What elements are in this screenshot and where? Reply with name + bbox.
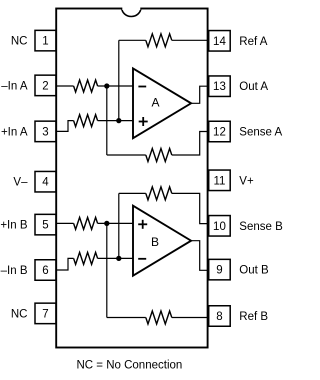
wire pin3 jog to resistor to op-amp A non-inverting input: [56, 121, 133, 132]
caption: NC = No Connection: [77, 359, 183, 371]
svg-text:8: 8: [216, 311, 222, 323]
pin 8 (Ref B): [209, 306, 231, 327]
op-amp U1B: [133, 206, 191, 276]
pin 4 (V-): [35, 171, 56, 192]
svg-text:Out A: Out A: [239, 81, 268, 93]
wire junction A+ up to Ref A row: [118, 40, 120, 120]
wire Sense B feedback row to pin 10: [119, 193, 209, 223]
svg-text:V+: V+: [239, 175, 254, 187]
pin 13 (Out A): [209, 76, 231, 97]
resistor R3 (Ref A): [146, 34, 172, 47]
svg-text:2: 2: [42, 80, 48, 92]
resistor R5 (+In B input resistor): [74, 217, 98, 229]
pin 3 (+In A): [35, 121, 56, 141]
resistor R8 (Ref B): [146, 311, 172, 324]
svg-text:7: 7: [42, 308, 48, 320]
pin 6 (-In B): [35, 260, 56, 281]
node: A inverting input junction: [104, 83, 109, 88]
label pin11 V+: [239, 175, 254, 187]
svg-text:11: 11: [213, 175, 225, 187]
resistor R7 (B feedback to Sense B): [146, 187, 172, 200]
wire pin6 jog to resistor to op-amp B inverting input: [56, 258, 133, 270]
wire op-amp B output to pin 9: [191, 241, 209, 271]
pin 12 (Sense A): [209, 121, 231, 142]
wire pin2 to resistor to op-amp A inverting input: [56, 85, 133, 87]
svg-text:Sense B: Sense B: [239, 221, 283, 233]
svg-text:14: 14: [213, 36, 226, 48]
svg-text:10: 10: [213, 221, 226, 233]
label pin14 Ref A: [239, 36, 267, 48]
pin 11 (V+): [209, 170, 231, 191]
wire junction A- down to feedback row: [106, 86, 108, 155]
wire op-amp A output to pin 13: [191, 86, 209, 103]
pin 9 (Out B): [209, 259, 231, 280]
label pin7 NC: [11, 308, 28, 320]
svg-text:Sense A: Sense A: [239, 127, 282, 139]
op-amp U1A: [133, 68, 191, 138]
svg-text:Ref B: Ref B: [239, 311, 268, 323]
label pin1 NC: [11, 36, 28, 48]
svg-text:NC: NC: [11, 36, 28, 48]
svg-text:V–: V–: [13, 177, 28, 189]
wire junction B- up to Sense B row: [118, 193, 120, 258]
pin 14 (Ref A): [209, 31, 231, 52]
resistor R4 (A feedback to Sense A): [146, 149, 172, 162]
resistor R2 (+In A input resistor): [74, 115, 98, 127]
label pin2 -In A: [1, 80, 28, 92]
svg-text:+In B: +In B: [0, 220, 28, 232]
node: B inverting input junction: [116, 256, 121, 261]
svg-text:NC = No Connection: NC = No Connection: [77, 359, 183, 371]
label pin5 +In B: [0, 220, 28, 232]
svg-text:A: A: [151, 96, 159, 110]
wire feedback row A to Sense A pin: [107, 132, 209, 156]
svg-text:5: 5: [42, 220, 48, 232]
svg-text:–In A: –In A: [1, 80, 28, 92]
pin-1 index notch: [122, 8, 141, 17]
pin 1 (NC): [35, 30, 56, 50]
label pin3 +In A: [1, 126, 28, 138]
svg-text:3: 3: [42, 126, 48, 138]
node: A non-inverting input junction: [116, 118, 121, 123]
label pin8 Ref B: [239, 311, 268, 323]
label pin4 V-: [13, 177, 28, 189]
svg-text:NC: NC: [11, 308, 28, 320]
resistor R6 (-In B input resistor): [74, 252, 98, 264]
wire Ref A row: [119, 39, 209, 41]
node: B non-inverting input junction: [104, 221, 109, 226]
svg-text:4: 4: [42, 177, 49, 189]
label pin9 Out B: [239, 265, 269, 277]
wire Ref B row: [107, 317, 209, 319]
svg-text:6: 6: [42, 265, 48, 277]
wire junction B+ down to Ref B row: [106, 223, 108, 317]
svg-text:–In B: –In B: [1, 265, 28, 277]
svg-text:B: B: [151, 235, 159, 249]
pin 2 (-In A): [35, 75, 56, 96]
label pin12 Sense A: [239, 127, 282, 139]
svg-text:1: 1: [42, 36, 48, 48]
label pin13 Out A: [239, 81, 268, 93]
svg-text:Out B: Out B: [239, 265, 269, 277]
svg-text:9: 9: [216, 265, 222, 277]
label pin10 Sense B: [239, 221, 283, 233]
svg-text:+In A: +In A: [1, 126, 28, 138]
pin 7 (NC): [35, 303, 56, 324]
svg-text:12: 12: [213, 127, 226, 139]
resistor R1 (-In A input resistor): [74, 80, 98, 92]
wire pin5 to resistor to op-amp B non-inverting input: [56, 222, 133, 224]
svg-text:Ref A: Ref A: [239, 36, 267, 48]
pin 10 (Sense B): [209, 216, 231, 237]
pin 5 (+In B): [35, 214, 56, 235]
label pin6 -In B: [1, 265, 28, 277]
IC body outline: [56, 9, 207, 348]
svg-text:13: 13: [213, 81, 226, 93]
